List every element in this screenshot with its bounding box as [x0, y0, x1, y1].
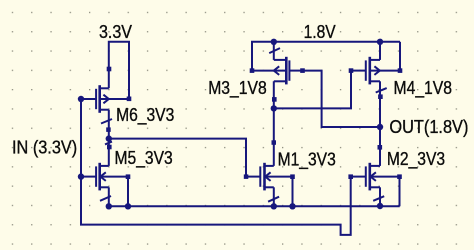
- svg-text:M2_3V3: M2_3V3: [387, 149, 445, 170]
- M5 bulk wire: [125, 174, 131, 209]
- M3 drain wire down to M1: [271, 81, 277, 166]
- M1 bulk wire: [289, 174, 295, 209]
- M1 source junction: [271, 203, 277, 209]
- cross-couple wire (node A to M4 gate): [274, 71, 351, 109]
- svg-text:IN (3.3V): IN (3.3V): [12, 138, 77, 158]
- svg-text:M5_3V3: M5_3V3: [115, 148, 173, 169]
- transistor M1 (NMOS): [246, 163, 293, 207]
- svg-text:1.8V: 1.8V: [304, 22, 336, 42]
- node A wire (M6 drain to M1 gate): [106, 135, 249, 178]
- transistor M5 (NMOS): [81, 139, 128, 207]
- 3.3V supply loop wire: [107, 42, 132, 101]
- transistor M2 (NMOS): [348, 163, 399, 207]
- transistor M4 (PMOS): [349, 42, 400, 93]
- 1.8V rail wire: [252, 39, 400, 71]
- svg-text:M4_1V8: M4_1V8: [394, 78, 453, 99]
- svg-text:M1_3V3: M1_3V3: [278, 150, 336, 171]
- tail wire (common source net): [106, 203, 400, 209]
- node OUT wire (M4 drain to M2 drain): [377, 81, 383, 166]
- svg-text:3.3V: 3.3V: [99, 22, 132, 42]
- transistor M3 (PMOS, mirrored): [250, 42, 305, 85]
- svg-text:M3_1V8: M3_1V8: [208, 78, 267, 99]
- M4 bulk wire to rail: [398, 42, 403, 73]
- M2 source junction: [377, 203, 383, 209]
- node IN bus wire: [78, 96, 351, 235]
- transistor M6 (PMOS): [81, 85, 129, 138]
- svg-text:OUT(1.8V): OUT(1.8V): [389, 117, 468, 137]
- M2 bulk wire: [397, 174, 402, 206]
- node B wire (M3 gate to OUT): [303, 71, 381, 127]
- svg-text:M6_3V3: M6_3V3: [116, 105, 174, 126]
